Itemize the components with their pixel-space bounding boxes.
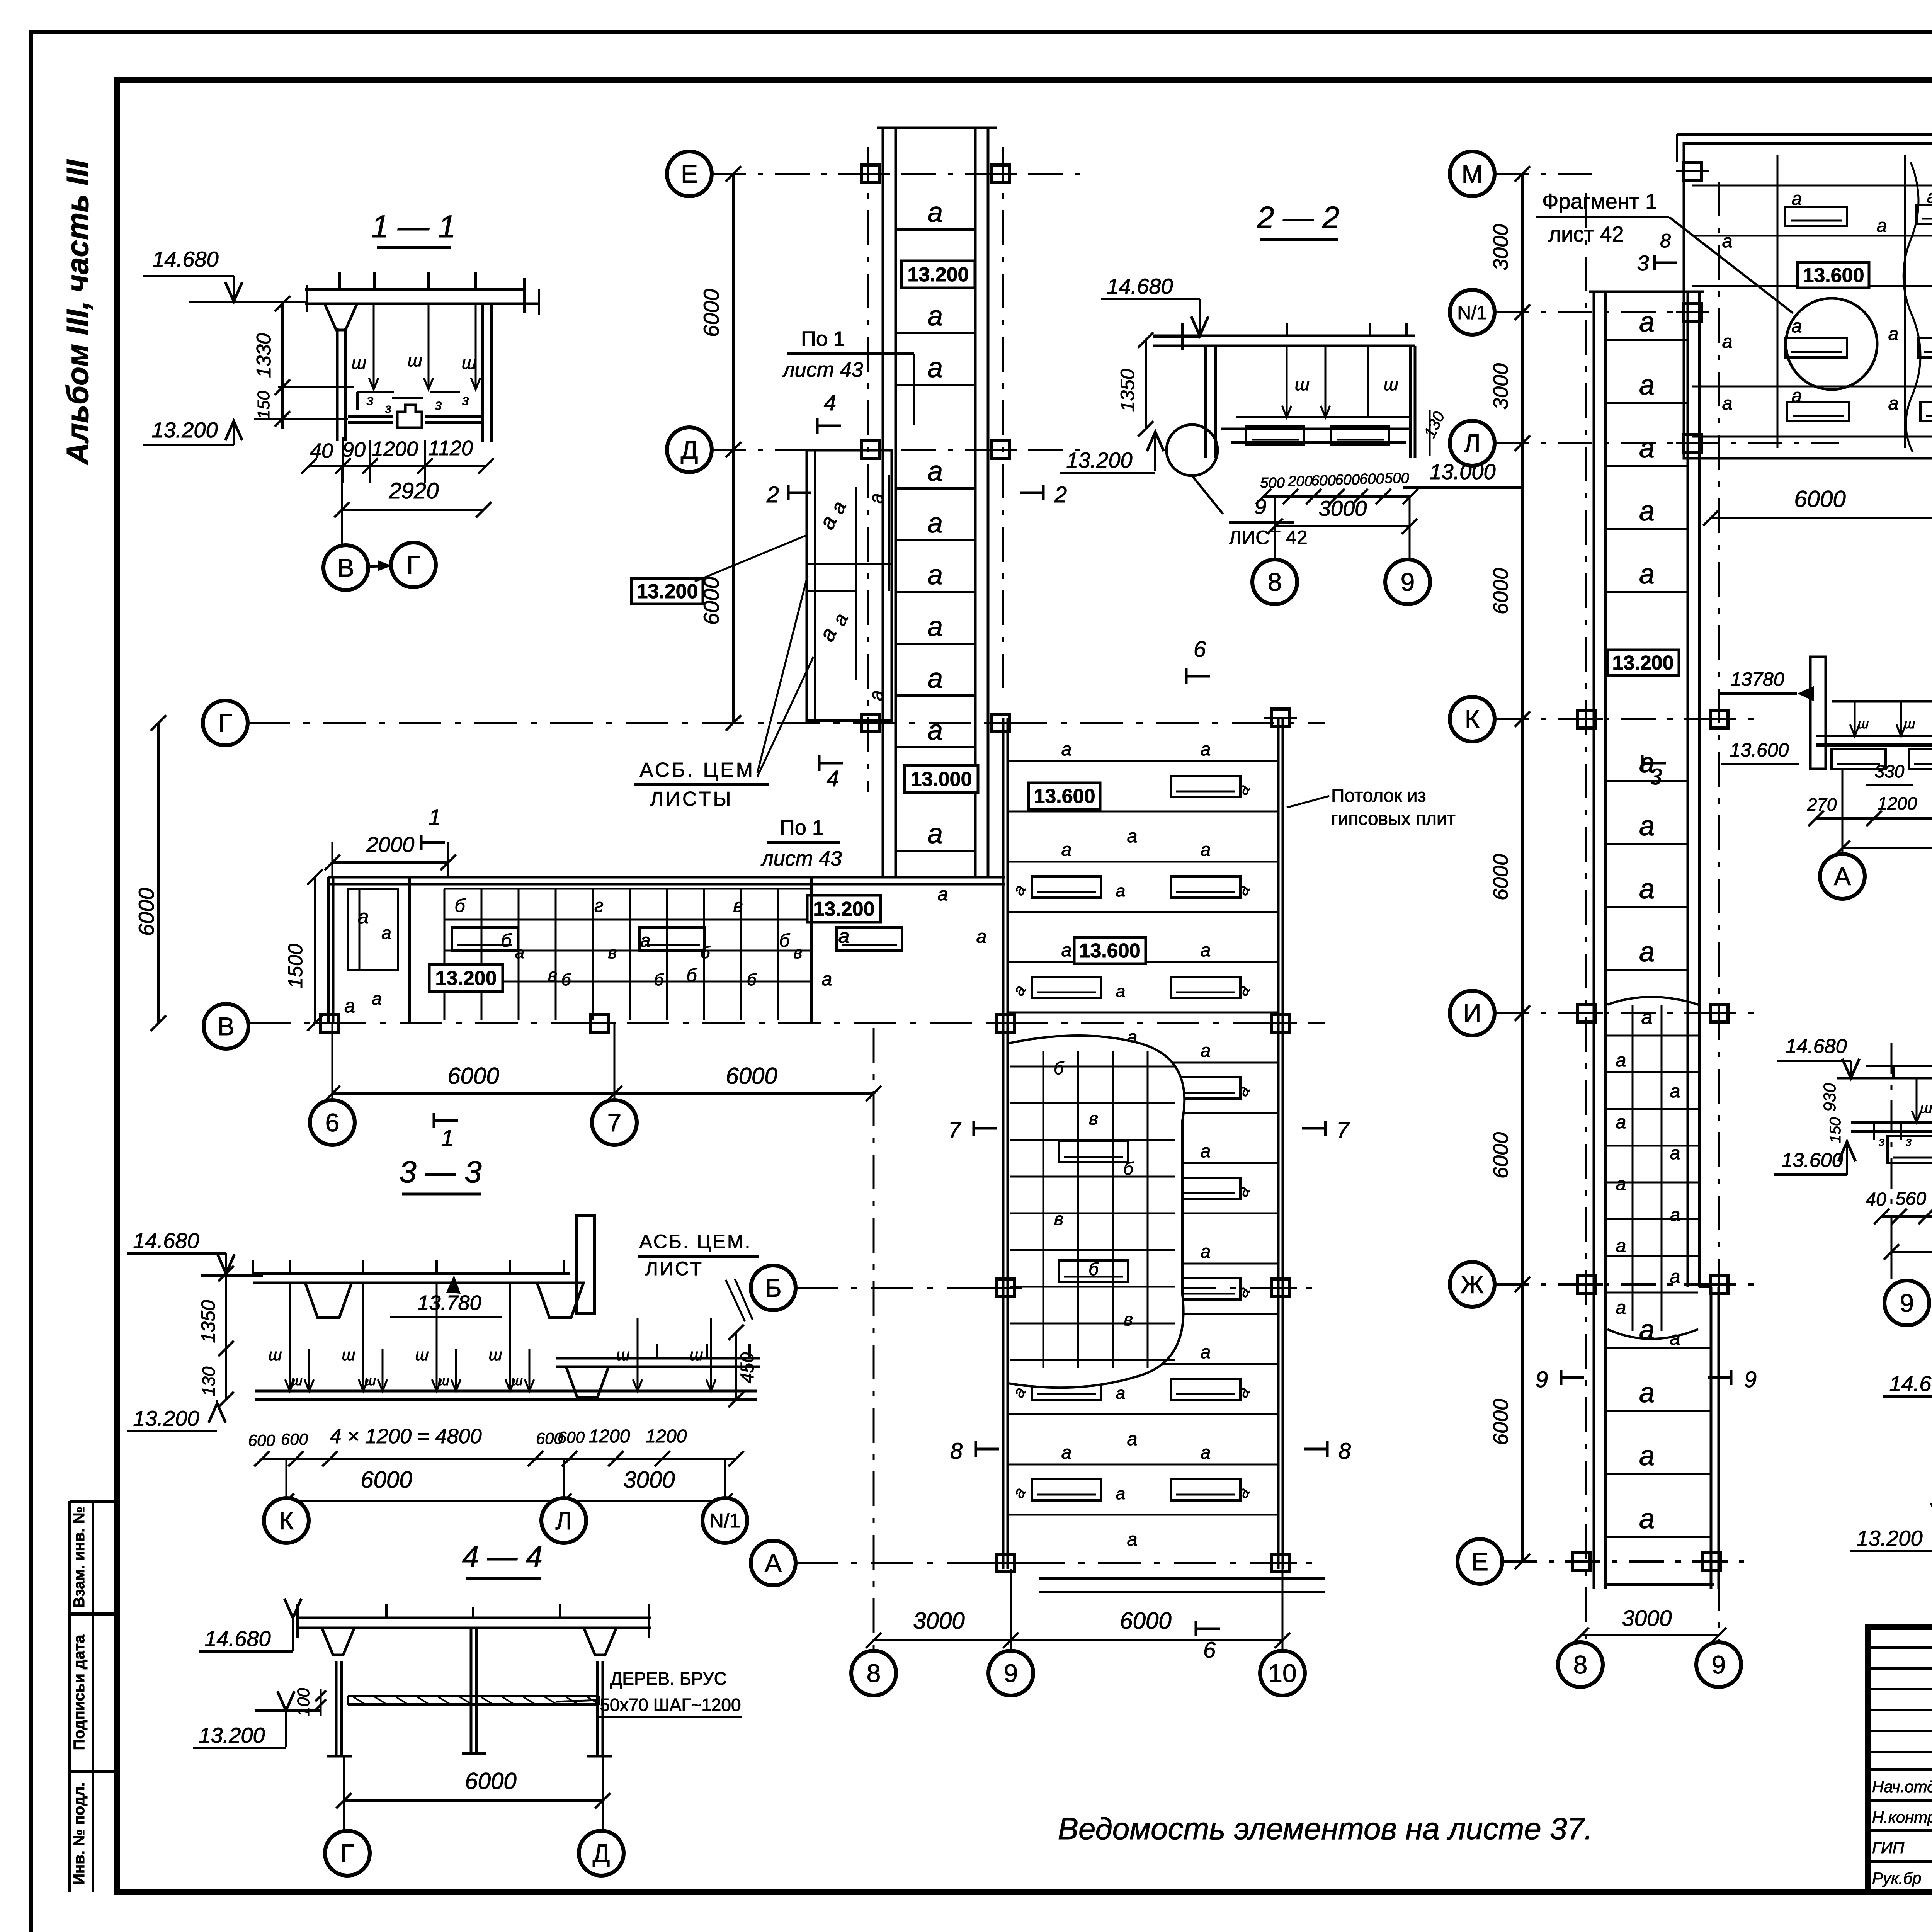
svg-text:Б: Б: [765, 1274, 781, 1302]
axis circle 9 (2-2): [1385, 560, 1430, 604]
svg-text:ш: ш: [1858, 717, 1869, 731]
svg-text:13.000: 13.000: [910, 768, 972, 791]
svg-text:Рук.бр: Рук.бр: [1872, 1869, 1922, 1887]
top right plan outer border: [1684, 143, 1932, 458]
axis circle 8 (2-2): [1252, 560, 1297, 604]
svg-text:ш: ш: [438, 1372, 449, 1388]
svg-text:7: 7: [1337, 1118, 1350, 1143]
svg-text:В: В: [218, 1012, 235, 1041]
axis circle 6: [310, 1100, 355, 1145]
svg-text:13.000: 13.000: [1429, 459, 1495, 484]
top right plan fixtures: [1785, 207, 1847, 226]
svg-text:1200: 1200: [646, 1426, 687, 1447]
svg-text:9: 9: [1744, 1367, 1757, 1392]
svg-text:И: И: [1463, 999, 1481, 1027]
section 1-1 right double hanger: [481, 304, 484, 442]
svg-text:ш: ш: [415, 1345, 429, 1364]
svg-text:600: 600: [1359, 471, 1384, 487]
svg-text:13.200: 13.200: [1066, 448, 1132, 472]
svg-text:150: 150: [254, 391, 273, 419]
svg-text:8: 8: [1660, 230, 1671, 252]
svg-text:ЛИСТ: ЛИСТ: [645, 1258, 703, 1279]
svg-text:6000: 6000: [465, 1768, 516, 1794]
left margin stamp strip: [68, 1501, 71, 1892]
axis circle 8 (ladder): [1558, 1642, 1603, 1687]
axis circle 10 bottom: [1260, 1651, 1305, 1696]
svg-text:а: а: [1888, 324, 1899, 344]
svg-text:a: a: [1641, 1006, 1653, 1029]
svg-text:ш: ш: [364, 1372, 376, 1388]
svg-text:9: 9: [1401, 568, 1415, 596]
svg-text:1200: 1200: [372, 437, 418, 461]
svg-text:a: a: [927, 352, 943, 383]
svg-text:ш: ш: [342, 1345, 355, 1364]
svg-text:90: 90: [342, 438, 366, 461]
svg-text:a: a: [1201, 840, 1211, 860]
svg-text:3 — 3: 3 — 3: [399, 1155, 481, 1189]
svg-text:а: а: [1927, 187, 1932, 207]
section 3-3 ceiling: [255, 1390, 757, 1393]
svg-text:ДЕРЕВ. БРУС: ДЕРЕВ. БРУС: [610, 1668, 727, 1689]
svg-text:ш: ш: [1384, 374, 1398, 394]
svg-text:a: a: [1116, 1384, 1125, 1403]
middle ladder node squares: [1577, 710, 1595, 728]
axis row В: [248, 1022, 1325, 1024]
svg-text:б: б: [455, 896, 466, 916]
svg-text:в: в: [608, 943, 617, 962]
section 4-4 ceiling with wood batten: [348, 1695, 599, 1697]
svg-text:б: б: [747, 970, 757, 989]
section 1-1 roof slab: [305, 288, 526, 291]
svg-text:Д: Д: [593, 1839, 610, 1867]
svg-text:з: з: [1879, 1134, 1885, 1148]
svg-text:40: 40: [310, 439, 333, 463]
svg-text:Г: Г: [340, 1839, 354, 1867]
svg-text:1500: 1500: [284, 944, 307, 988]
svg-text:з: з: [462, 392, 469, 408]
svg-text:a: a: [1616, 1298, 1626, 1318]
vertical axis col 8 dashed: [867, 147, 869, 792]
svg-text:з: з: [1906, 1134, 1912, 1148]
boxed level 13.200 middle ladder: [1607, 650, 1679, 675]
svg-text:13.200: 13.200: [1612, 652, 1673, 674]
svg-text:ш: ш: [1920, 1100, 1932, 1116]
svg-text:7: 7: [948, 1118, 962, 1143]
svg-text:a: a: [927, 456, 943, 487]
svg-text:a: a: [1670, 1081, 1680, 1102]
svg-text:Взам. инв. №: Взам. инв. №: [71, 1507, 88, 1608]
leader lines to asb list label: [757, 576, 808, 773]
svg-text:8: 8: [1338, 1439, 1351, 1464]
section 1-1 column: [325, 304, 357, 330]
vertical axis col 9 dashed: [1002, 147, 1004, 688]
svg-text:6000: 6000: [447, 1063, 499, 1089]
section 6-6 left end bar: [1810, 657, 1826, 769]
svg-text:Д: Д: [681, 435, 698, 464]
svg-text:10: 10: [1268, 1659, 1296, 1687]
svg-text:2 — 2: 2 — 2: [1257, 200, 1339, 235]
svg-text:3000: 3000: [913, 1608, 964, 1634]
svg-text:1350: 1350: [1117, 369, 1138, 412]
svg-text:14.680: 14.680: [204, 1626, 270, 1651]
svg-text:а: а: [1722, 332, 1733, 352]
svg-text:6000: 6000: [1794, 486, 1845, 512]
svg-text:13.200: 13.200: [907, 264, 969, 286]
svg-text:13.200: 13.200: [151, 418, 218, 442]
svg-text:3000: 3000: [1489, 224, 1512, 270]
svg-text:ш: ш: [352, 353, 366, 373]
vertical dims 3000 3000 6000x4: [1521, 174, 1524, 443]
svg-text:б: б: [687, 965, 698, 986]
svg-text:600: 600: [1335, 472, 1359, 488]
svg-text:1 — 1: 1 — 1: [371, 209, 456, 244]
svg-text:a: a: [1639, 874, 1655, 905]
svg-text:а: а: [1792, 386, 1802, 406]
svg-text:1120: 1120: [428, 437, 473, 460]
svg-text:8: 8: [950, 1439, 963, 1464]
left axis circles М N1 Л К И Ж Е: [1450, 151, 1495, 196]
section 3-3 dim 450: [735, 1332, 737, 1400]
svg-text:13.200: 13.200: [1856, 1526, 1922, 1550]
svg-text:a: a: [1670, 1328, 1680, 1349]
svg-text:14.680: 14.680: [133, 1228, 199, 1253]
axis row Г: [247, 722, 1325, 724]
svg-text:500: 500: [1384, 470, 1409, 486]
svg-text:a: a: [1201, 1041, 1211, 1061]
svg-text:a: a: [927, 663, 943, 694]
svg-text:13.600: 13.600: [1730, 739, 1789, 761]
svg-text:a: a: [1061, 1442, 1072, 1463]
svg-text:Фрагмент 1: Фрагмент 1: [1542, 189, 1657, 213]
svg-text:А: А: [765, 1549, 782, 1577]
svg-text:a: a: [1639, 1315, 1655, 1345]
svg-text:АСБ. ЦЕМ.: АСБ. ЦЕМ.: [639, 759, 763, 781]
svg-text:К: К: [1465, 705, 1480, 733]
svg-text:8: 8: [1573, 1650, 1588, 1679]
svg-text:a: a: [1639, 370, 1655, 401]
dim 1500 left of plan band: [314, 877, 316, 1023]
svg-text:1330: 1330: [253, 333, 275, 378]
section 7-7 ceiling: [1851, 1121, 1932, 1124]
svg-text:13.600: 13.600: [1034, 785, 1095, 808]
svg-text:14.680: 14.680: [152, 247, 218, 271]
svg-text:лист 43: лист 43: [782, 358, 863, 381]
svg-text:б: б: [654, 970, 665, 989]
svg-text:330: 330: [1875, 761, 1905, 781]
section 7-7 hangers: [1916, 1078, 1918, 1122]
boxed level 13.600 (upper): [1029, 783, 1100, 809]
axis circle 8 bottom: [851, 1651, 896, 1696]
stair strip ladder cols 8-9 top: [877, 127, 997, 129]
svg-text:3000: 3000: [623, 1467, 675, 1493]
svg-text:200: 200: [1287, 473, 1312, 490]
svg-text:Потолок из: Потолок из: [1331, 786, 1426, 806]
svg-text:6000: 6000: [726, 1063, 777, 1089]
svg-text:в: в: [733, 896, 743, 916]
svg-text:Нач.отд: Нач.отд: [1872, 1777, 1932, 1796]
svg-text:в: в: [1089, 1108, 1098, 1128]
svg-text:8: 8: [1268, 568, 1282, 596]
section 2-2 roof slab: [1153, 335, 1415, 337]
section 6-6 hangers left: [1854, 701, 1856, 736]
svg-text:в: в: [794, 943, 803, 962]
axis circle Л: [541, 1498, 586, 1543]
svg-text:а: а: [640, 930, 651, 951]
svg-text:13.600: 13.600: [1781, 1149, 1843, 1172]
svg-text:2000: 2000: [366, 832, 415, 857]
svg-text:a: a: [976, 927, 987, 947]
svg-text:a: a: [866, 493, 887, 504]
svg-text:a: a: [927, 611, 943, 642]
svg-text:600: 600: [281, 1430, 308, 1448]
axis circle Г (4-4): [325, 1831, 370, 1876]
svg-text:ш: ш: [269, 1345, 282, 1364]
svg-text:з: з: [435, 397, 442, 413]
svg-text:3000: 3000: [1622, 1606, 1672, 1631]
section 6-6 left lower roof: [1832, 700, 1932, 703]
svg-text:500: 500: [1260, 475, 1284, 491]
section 1-1 hangers: [373, 304, 375, 389]
svg-text:1200: 1200: [1878, 793, 1917, 813]
svg-text:14.680: 14.680: [1785, 1035, 1847, 1058]
svg-text:4: 4: [827, 766, 839, 791]
svg-text:3: 3: [1650, 764, 1662, 789]
svg-text:Альбом III, часть III: Альбом III, часть III: [60, 159, 95, 466]
svg-text:50х70 ШАГ~1200: 50х70 ШАГ~1200: [600, 1695, 741, 1715]
svg-text:a: a: [1201, 940, 1211, 961]
svg-text:Г: Г: [406, 551, 420, 579]
left plan band left edge: [327, 877, 330, 1023]
svg-text:450: 450: [737, 1352, 758, 1383]
svg-text:a: a: [1639, 559, 1655, 590]
section 3-3 right column: [576, 1216, 594, 1314]
svg-text:б: б: [501, 930, 512, 951]
axis circle N1: [702, 1498, 747, 1543]
svg-text:a: a: [1061, 739, 1072, 760]
svg-text:a: a: [1639, 937, 1655, 968]
node squares of tall plan: [997, 1014, 1014, 1032]
svg-text:9: 9: [1536, 1367, 1548, 1392]
section 2-2 columns and walls: [1204, 346, 1207, 458]
svg-text:ЛИСТЫ: ЛИСТЫ: [650, 788, 733, 810]
boxed level 13.000 on ladder lower: [905, 765, 978, 793]
svg-text:6000: 6000: [1489, 854, 1512, 900]
svg-text:a: a: [1116, 881, 1125, 900]
top right plan verticals: [1777, 155, 1779, 448]
svg-text:a: a: [1201, 1141, 1211, 1162]
section 1-1 elevation 13.200: [254, 418, 348, 420]
svg-text:a: a: [1201, 1342, 1211, 1362]
section 7-7 roof: [1837, 1077, 1932, 1080]
svg-text:1200: 1200: [589, 1426, 630, 1447]
svg-text:7: 7: [607, 1108, 622, 1137]
svg-text:a: a: [927, 197, 943, 228]
svg-text:ш: ш: [1904, 717, 1915, 731]
axis circle 9 bottom: [988, 1651, 1033, 1696]
svg-text:9: 9: [1004, 1659, 1018, 1687]
svg-text:6000: 6000: [1489, 1132, 1512, 1179]
svg-text:a: a: [1061, 940, 1072, 961]
svg-text:N/1: N/1: [1457, 302, 1487, 323]
svg-text:6000: 6000: [361, 1467, 412, 1493]
small plan attached left of ladder: [807, 450, 892, 721]
svg-text:13.780: 13.780: [417, 1291, 481, 1315]
svg-text:a: a: [927, 715, 943, 746]
svg-text:a: a: [1670, 1205, 1680, 1225]
section 4-4 roof slab: [298, 1617, 651, 1619]
section 1-1 axis circles В Г: [341, 466, 343, 546]
svg-text:Н.контр: Н.контр: [1872, 1808, 1932, 1826]
svg-text:Е: Е: [681, 160, 698, 188]
svg-text:6000: 6000: [699, 577, 723, 625]
svg-text:ГИП: ГИП: [1872, 1838, 1905, 1857]
svg-text:6: 6: [1194, 637, 1206, 662]
svg-text:a: a: [1201, 739, 1211, 760]
svg-text:з: з: [366, 392, 374, 408]
svg-text:a: a: [381, 923, 391, 943]
svg-text:a: a: [1127, 826, 1138, 847]
svg-text:Г: Г: [218, 709, 232, 737]
svg-text:3: 3: [1637, 251, 1649, 275]
svg-text:a: a: [372, 988, 382, 1009]
svg-text:a: a: [1127, 1429, 1138, 1449]
svg-text:a: a: [1616, 1236, 1626, 1256]
ladder rungs with а labels: [896, 228, 975, 231]
svg-text:150: 150: [1827, 1117, 1844, 1143]
svg-text:ш: ш: [690, 1345, 703, 1364]
section 1-1 vertical dims 1330/150: [281, 304, 284, 429]
svg-text:600: 600: [248, 1431, 276, 1449]
svg-text:лист 43: лист 43: [760, 847, 842, 870]
svg-text:13.200: 13.200: [435, 967, 497, 990]
svg-text:3000: 3000: [1489, 363, 1512, 410]
svg-text:9: 9: [1254, 494, 1266, 519]
svg-text:a: a: [358, 906, 369, 928]
svg-text:ш: ш: [511, 1372, 523, 1388]
middle ladder (cols 8-9): [1593, 292, 1595, 1589]
svg-text:1: 1: [429, 805, 441, 830]
middle ladder dense middle part with cloud: [1607, 997, 1698, 1005]
svg-text:13.200: 13.200: [199, 1723, 265, 1747]
svg-text:ш: ш: [616, 1345, 630, 1364]
svg-text:а: а: [1722, 231, 1733, 252]
svg-text:9: 9: [1712, 1650, 1726, 1679]
svg-text:a: a: [1061, 840, 1072, 860]
svg-text:ЛИСТ 42: ЛИСТ 42: [1229, 527, 1307, 548]
detail circle fragment: [1786, 298, 1877, 389]
node squares top right plan: [1684, 162, 1701, 180]
left plan band cells: [408, 877, 411, 1023]
svg-text:в: в: [1054, 1209, 1063, 1229]
svg-text:a: a: [927, 560, 943, 590]
svg-text:a: a: [1639, 1503, 1655, 1534]
dim line 6000 6000 below plan band: [332, 1092, 874, 1095]
svg-text:6000: 6000: [134, 888, 158, 936]
svg-text:По 1: По 1: [780, 816, 824, 839]
svg-text:a: a: [1616, 1174, 1626, 1194]
vertical dim Г-В 6000: [157, 723, 160, 1023]
svg-text:Подписьи дата: Подписьи дата: [71, 1634, 88, 1750]
axis row Б: [795, 1287, 1325, 1289]
section 4-4 dim 100: [320, 1689, 322, 1716]
boxed level 13.600 (lower): [1074, 937, 1146, 964]
svg-text:a: a: [927, 301, 943, 332]
svg-text:А: А: [1834, 862, 1851, 891]
tall plan cols 9-10 left border: [1002, 718, 1005, 1569]
svg-text:з: з: [385, 401, 391, 416]
boxed level 13.200 on ladder: [901, 261, 975, 288]
svg-text:6000: 6000: [1489, 1399, 1512, 1445]
svg-text:13.200: 13.200: [636, 580, 698, 603]
svg-text:1350: 1350: [197, 1300, 219, 1343]
svg-text:a: a: [1127, 1529, 1138, 1550]
boxed level 13.600 top right plan: [1798, 262, 1869, 288]
svg-text:К: К: [279, 1506, 294, 1535]
svg-text:4 — 4: 4 — 4: [462, 1539, 543, 1573]
svg-text:2: 2: [766, 482, 779, 507]
svg-text:ш: ш: [291, 1372, 303, 1388]
svg-text:г: г: [594, 896, 604, 916]
boxed 13.200 with leader (near plan): [631, 578, 703, 604]
svg-text:100: 100: [294, 1688, 313, 1716]
left plan band top edge: [328, 876, 1005, 879]
svg-text:АСБ. ЦЕМ.: АСБ. ЦЕМ.: [639, 1231, 752, 1252]
svg-text:б: б: [561, 970, 572, 989]
section 2-2 ceiling assembly: [1236, 416, 1412, 418]
section 7-7 grid line 9 vertical: [1891, 1043, 1893, 1275]
svg-text:a: a: [1201, 1442, 1211, 1463]
boxed level 13.200 in plan (lower): [429, 964, 503, 992]
svg-text:1: 1: [441, 1126, 454, 1151]
axis circle Д (4-4): [579, 1831, 624, 1876]
svg-text:a: a: [344, 995, 355, 1017]
svg-text:13.600: 13.600: [1079, 940, 1140, 962]
svg-text:a: a: [1116, 1484, 1125, 1503]
svg-text:в: в: [1124, 1309, 1133, 1329]
section 2-2 right dim 130: [1429, 410, 1431, 456]
svg-text:гипсовых плит: гипсовых плит: [1331, 809, 1456, 829]
svg-text:6000: 6000: [699, 289, 723, 337]
ladder node squares: [861, 165, 879, 183]
section 4-4 columns: [335, 1661, 338, 1757]
tall plan right border: [1277, 718, 1280, 1569]
svg-text:М: М: [1462, 160, 1483, 188]
axis row Д: [711, 449, 1082, 451]
section 3-3 roof slab: [253, 1272, 570, 1275]
svg-text:a: a: [927, 818, 943, 849]
section 6-6 ceiling: [1816, 735, 1932, 737]
section 2-2 hangers: [1286, 346, 1288, 417]
svg-text:a: a: [1639, 496, 1655, 527]
svg-text:ш: ш: [462, 353, 476, 373]
section 3-3 hangers: [289, 1283, 291, 1391]
axis circle К: [264, 1498, 309, 1543]
svg-text:Ведомость элементов на лист: Ведомость элементов на листе 37.: [1058, 1811, 1593, 1846]
middle ladder dashed axes: [1585, 193, 1587, 1642]
right sparse part of band: [810, 877, 813, 1023]
svg-text:a: a: [1639, 1378, 1655, 1408]
svg-text:14.680: 14.680: [1889, 1371, 1932, 1396]
tall plan bottom extension lines: [1039, 1577, 1325, 1580]
svg-text:2920: 2920: [388, 478, 439, 503]
svg-text:По 1: По 1: [801, 327, 845, 350]
svg-text:8: 8: [867, 1659, 881, 1687]
node squares row В: [320, 1014, 338, 1032]
axis circle 7: [592, 1100, 637, 1145]
svg-text:а: а: [1888, 393, 1899, 414]
svg-text:Л: Л: [1464, 429, 1480, 457]
svg-text:Л: Л: [555, 1506, 572, 1535]
